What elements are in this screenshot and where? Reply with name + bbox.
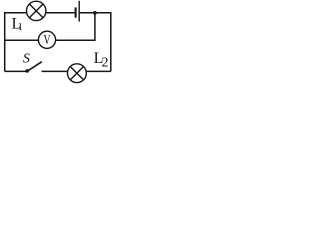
svg-text:S: S: [23, 52, 30, 67]
node junction dot: [93, 11, 97, 15]
wire bottom-left to switch: [5, 70, 26, 72]
svg-text:1: 1: [18, 22, 23, 33]
wire voltmeter branch left: [5, 39, 39, 41]
switch S blade: [28, 62, 42, 71]
wire L1 to battery: [46, 12, 75, 14]
wire battery to top-right corner: [80, 12, 111, 14]
wire switch to lamp L2: [42, 70, 68, 72]
switch S pivot: [25, 69, 29, 73]
wire junction down to voltmeter branch: [56, 13, 95, 40]
wire left side: [4, 13, 6, 72]
lamp L1: [27, 1, 46, 20]
wire L2 to bottom-right corner: [86, 70, 111, 72]
svg-text:V: V: [44, 33, 51, 48]
svg-text:2: 2: [102, 56, 109, 71]
voltmeter V1: [38, 31, 55, 48]
lamp L2: [68, 64, 87, 83]
wire top-left segment: [4, 12, 27, 14]
wire right side: [110, 12, 112, 71]
battery cell plates: [75, 7, 77, 17]
